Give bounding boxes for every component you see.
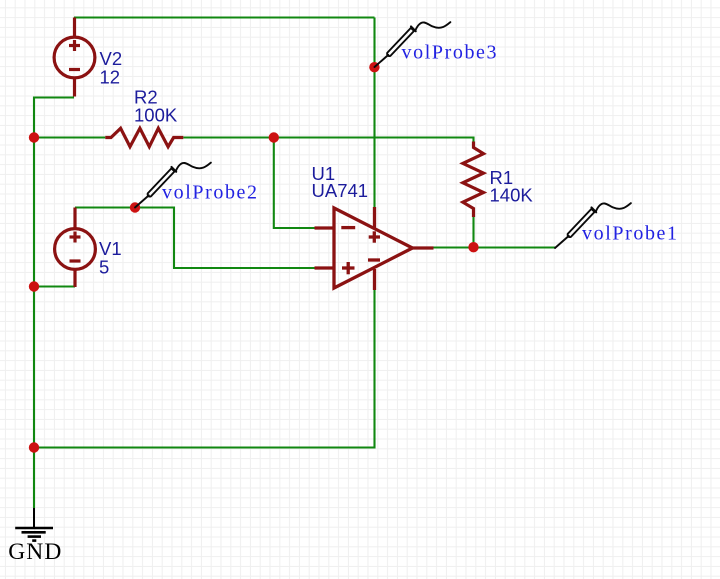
svg-text:100K: 100K bbox=[134, 105, 178, 126]
wire bbox=[34, 290, 375, 448]
junction node D bbox=[269, 132, 279, 142]
resistor R1 bbox=[463, 142, 484, 218]
svg-text:volProbe1: volProbe1 bbox=[582, 223, 679, 245]
svg-text:5: 5 bbox=[99, 257, 109, 278]
svg-text:UA741: UA741 bbox=[312, 180, 369, 201]
svg-text:volProbe3: volProbe3 bbox=[402, 42, 499, 64]
wire bbox=[34, 285, 75, 287]
svg-text:12: 12 bbox=[100, 67, 121, 88]
voltage source V2 bbox=[54, 18, 95, 97]
wire bbox=[274, 138, 315, 229]
probe volProbe1 bbox=[555, 203, 631, 248]
junction node B bbox=[29, 281, 39, 291]
wire bbox=[34, 136, 105, 138]
wire bbox=[373, 18, 375, 208]
svg-text:GND: GND bbox=[8, 539, 62, 565]
wire bbox=[433, 246, 555, 248]
wire bbox=[74, 16, 375, 18]
junction node E bbox=[369, 62, 379, 72]
op-amp U1 bbox=[315, 207, 434, 290]
probe volProbe2 bbox=[135, 163, 211, 208]
wire bbox=[183, 138, 473, 144]
probe volProbe3 bbox=[375, 22, 451, 67]
wire bbox=[472, 217, 474, 248]
junction node G bbox=[468, 242, 478, 252]
junction node C bbox=[29, 442, 39, 452]
svg-text:140K: 140K bbox=[490, 185, 534, 206]
voltage source V1 bbox=[55, 208, 96, 288]
ground bbox=[15, 508, 53, 541]
resistor R2 bbox=[105, 128, 183, 146]
svg-text:volProbe2: volProbe2 bbox=[162, 181, 259, 203]
junction node F bbox=[130, 202, 140, 212]
wire bbox=[34, 98, 74, 509]
wire bbox=[75, 208, 315, 269]
junction node A bbox=[29, 132, 39, 142]
